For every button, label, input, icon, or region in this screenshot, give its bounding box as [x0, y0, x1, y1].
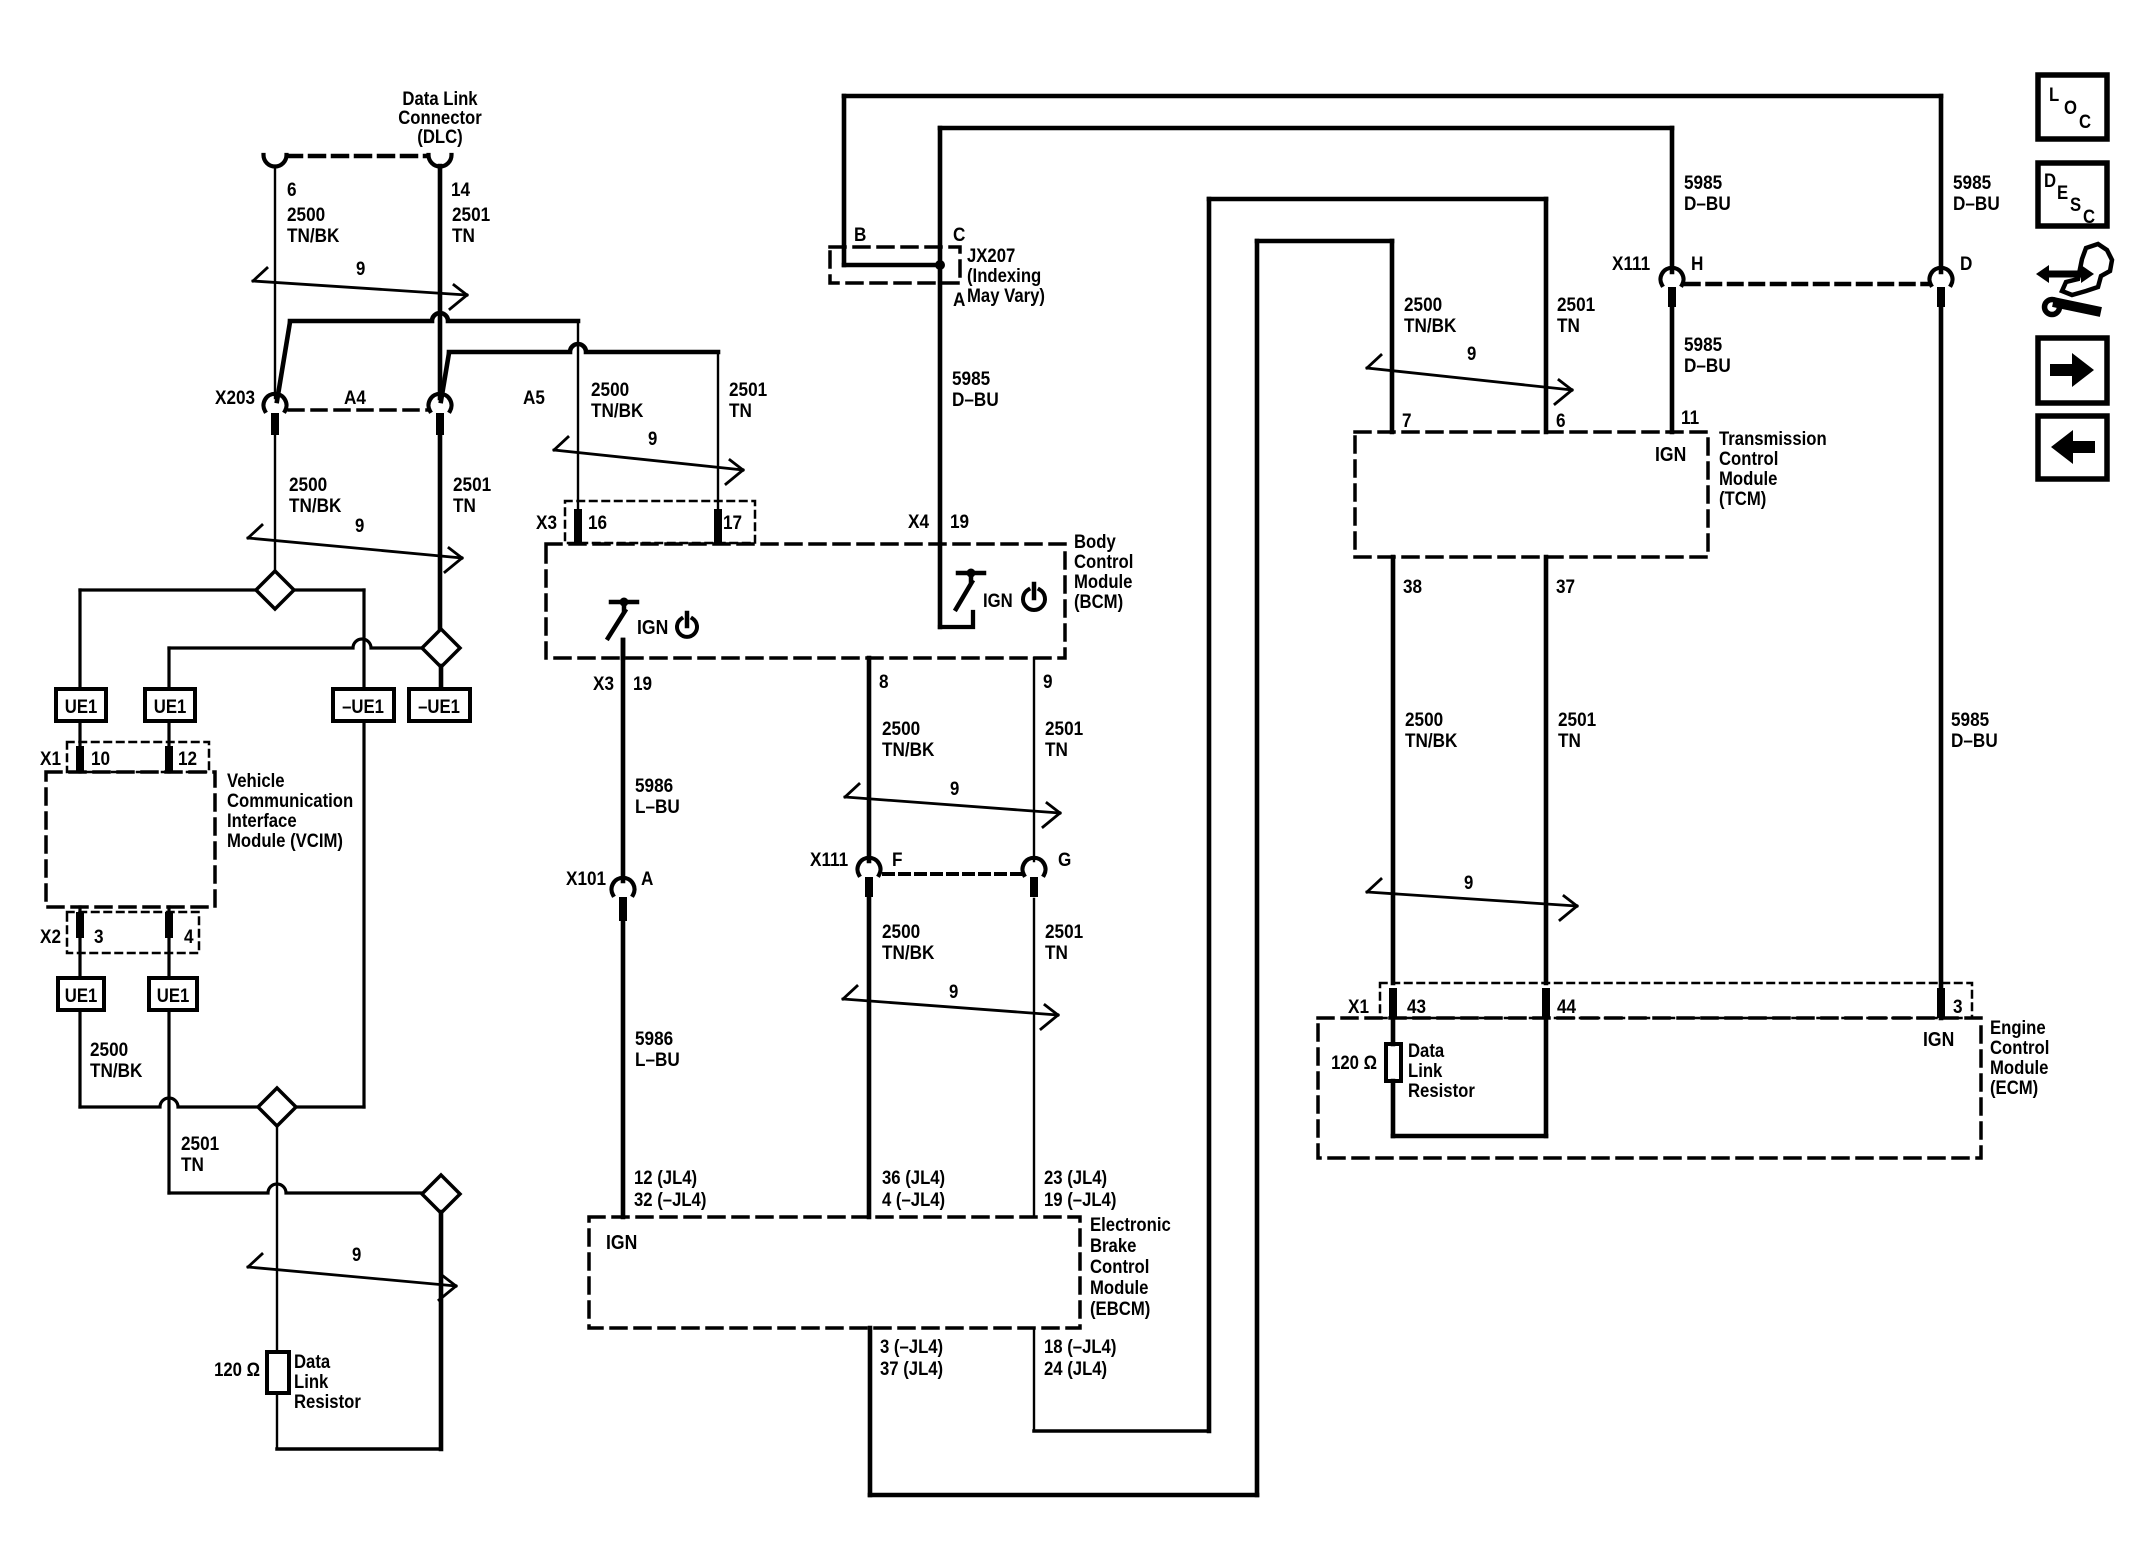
svg-text:A: A	[953, 288, 965, 310]
svg-text:TN: TN	[1045, 738, 1068, 760]
svg-text:X101: X101	[566, 867, 606, 889]
svg-text:Module: Module	[1090, 1277, 1148, 1298]
svg-text:X1: X1	[40, 747, 61, 769]
svg-text:5985: 5985	[1951, 708, 1989, 730]
svg-text:UE1: UE1	[154, 696, 187, 717]
svg-text:2500: 2500	[1405, 708, 1443, 730]
svg-text:2500: 2500	[591, 378, 629, 400]
svg-text:9: 9	[355, 515, 364, 536]
svg-text:D–BU: D–BU	[1684, 192, 1731, 214]
svg-text:Module: Module	[1719, 468, 1777, 489]
svg-text:E: E	[2057, 182, 2068, 203]
svg-text:TN: TN	[181, 1153, 204, 1175]
svg-text:120 Ω: 120 Ω	[214, 1359, 260, 1380]
svg-text:4 (–JL4): 4 (–JL4)	[882, 1189, 945, 1210]
svg-text:(TCM): (TCM)	[1719, 488, 1766, 509]
svg-text:C: C	[953, 223, 965, 245]
svg-text:L: L	[2049, 84, 2059, 105]
svg-text:8: 8	[879, 670, 889, 692]
svg-text:2501: 2501	[1557, 293, 1595, 315]
svg-text:38: 38	[1403, 575, 1422, 597]
svg-text:O: O	[2064, 97, 2077, 118]
svg-text:UE1: UE1	[65, 696, 98, 717]
svg-text:B: B	[854, 223, 866, 245]
svg-text:Control: Control	[1719, 448, 1778, 469]
svg-text:D–BU: D–BU	[1684, 354, 1731, 376]
svg-text:3: 3	[94, 925, 104, 947]
svg-text:D: D	[1960, 252, 1972, 274]
svg-text:9: 9	[648, 428, 657, 449]
svg-text:X4: X4	[908, 510, 930, 532]
svg-text:TN/BK: TN/BK	[882, 941, 935, 963]
svg-text:6: 6	[287, 178, 297, 200]
svg-text:Module (VCIM): Module (VCIM)	[227, 830, 343, 851]
svg-text:2501: 2501	[181, 1132, 219, 1154]
svg-text:S: S	[2070, 194, 2081, 215]
svg-text:19 (–JL4): 19 (–JL4)	[1044, 1189, 1116, 1210]
svg-text:Resistor: Resistor	[294, 1391, 361, 1412]
svg-text:IGN: IGN	[983, 590, 1013, 611]
svg-text:TN/BK: TN/BK	[289, 494, 342, 516]
svg-text:–UE1: –UE1	[418, 696, 460, 717]
svg-text:(ECM): (ECM)	[1990, 1077, 2038, 1098]
svg-text:14: 14	[451, 178, 471, 200]
svg-text:D: D	[2044, 170, 2056, 191]
svg-text:Interface: Interface	[227, 810, 297, 831]
svg-text:5985: 5985	[1684, 171, 1722, 193]
svg-text:Brake: Brake	[1090, 1235, 1136, 1256]
svg-text:TN: TN	[1557, 314, 1580, 336]
svg-text:Module: Module	[1074, 571, 1132, 592]
svg-text:3 (–JL4): 3 (–JL4)	[880, 1336, 943, 1357]
svg-text:Data: Data	[294, 1351, 331, 1372]
svg-text:(DLC): (DLC)	[417, 126, 462, 147]
svg-text:5986: 5986	[635, 1027, 673, 1049]
svg-text:2500: 2500	[289, 473, 327, 495]
svg-text:12: 12	[178, 747, 197, 769]
svg-text:24 (JL4): 24 (JL4)	[1044, 1358, 1107, 1379]
svg-text:L–BU: L–BU	[635, 795, 680, 817]
svg-text:Control: Control	[1074, 551, 1133, 572]
svg-text:X111: X111	[810, 848, 848, 870]
svg-text:9: 9	[352, 1244, 361, 1265]
svg-text:D–BU: D–BU	[1953, 192, 2000, 214]
svg-text:TN: TN	[453, 494, 476, 516]
svg-text:Link: Link	[1408, 1060, 1442, 1081]
svg-text:C: C	[2083, 206, 2095, 227]
svg-text:2501: 2501	[1558, 708, 1596, 730]
svg-text:2500: 2500	[287, 203, 325, 225]
svg-text:3: 3	[1953, 995, 1963, 1017]
svg-text:9: 9	[950, 778, 959, 799]
svg-text:10: 10	[91, 747, 110, 769]
svg-text:TN/BK: TN/BK	[591, 399, 644, 421]
svg-text:2501: 2501	[453, 473, 491, 495]
svg-text:X111: X111	[1612, 252, 1650, 274]
svg-text:23 (JL4): 23 (JL4)	[1044, 1167, 1107, 1188]
svg-text:5985: 5985	[1953, 171, 1991, 193]
svg-text:G: G	[1058, 848, 1071, 870]
svg-text:X1: X1	[1348, 995, 1369, 1017]
svg-text:7: 7	[1402, 409, 1412, 431]
svg-text:A4: A4	[344, 386, 367, 408]
svg-text:TN/BK: TN/BK	[882, 738, 935, 760]
svg-text:2500: 2500	[1404, 293, 1442, 315]
svg-text:Link: Link	[294, 1371, 328, 1392]
svg-text:L–BU: L–BU	[635, 1048, 680, 1070]
svg-text:2501: 2501	[452, 203, 490, 225]
svg-text:120 Ω: 120 Ω	[1331, 1052, 1377, 1073]
svg-text:JX207: JX207	[967, 245, 1015, 266]
svg-text:2500: 2500	[882, 920, 920, 942]
svg-text:43: 43	[1407, 995, 1426, 1017]
svg-text:37 (JL4): 37 (JL4)	[880, 1358, 943, 1379]
svg-text:36 (JL4): 36 (JL4)	[882, 1167, 945, 1188]
svg-text:5985: 5985	[1684, 333, 1722, 355]
svg-text:9: 9	[356, 258, 365, 279]
svg-text:5986: 5986	[635, 774, 673, 796]
svg-text:Resistor: Resistor	[1408, 1080, 1475, 1101]
svg-text:6: 6	[1556, 409, 1566, 431]
svg-text:TN: TN	[729, 399, 752, 421]
svg-text:A5: A5	[523, 386, 545, 408]
svg-text:(BCM): (BCM)	[1074, 591, 1123, 612]
svg-text:9: 9	[949, 981, 958, 1002]
svg-text:TN: TN	[452, 224, 475, 246]
svg-text:19: 19	[633, 672, 652, 694]
svg-text:9: 9	[1467, 343, 1476, 364]
svg-text:11: 11	[1681, 406, 1699, 428]
svg-text:Electronic: Electronic	[1090, 1214, 1171, 1235]
svg-text:Vehicle: Vehicle	[227, 770, 285, 791]
svg-text:(EBCM): (EBCM)	[1090, 1298, 1150, 1319]
svg-text:Communication: Communication	[227, 790, 353, 811]
svg-text:TN/BK: TN/BK	[287, 224, 340, 246]
svg-text:2500: 2500	[90, 1038, 128, 1060]
svg-text:Module: Module	[1990, 1057, 2048, 1078]
svg-text:Data: Data	[1408, 1040, 1445, 1061]
svg-text:A: A	[641, 867, 653, 889]
svg-text:TN/BK: TN/BK	[90, 1059, 143, 1081]
svg-text:TN/BK: TN/BK	[1405, 729, 1458, 751]
svg-text:19: 19	[950, 510, 969, 532]
svg-text:17: 17	[723, 511, 742, 533]
svg-text:–UE1: –UE1	[342, 696, 384, 717]
svg-text:12 (JL4): 12 (JL4)	[634, 1167, 697, 1188]
svg-text:Control: Control	[1090, 1256, 1149, 1277]
svg-text:16: 16	[588, 511, 607, 533]
svg-text:May Vary): May Vary)	[967, 285, 1045, 306]
svg-text:UE1: UE1	[65, 985, 98, 1006]
svg-text:Engine: Engine	[1990, 1017, 2046, 1038]
svg-text:C: C	[2079, 111, 2091, 132]
svg-text:D–BU: D–BU	[952, 388, 999, 410]
svg-text:2501: 2501	[1045, 920, 1083, 942]
svg-text:18 (–JL4): 18 (–JL4)	[1044, 1336, 1116, 1357]
svg-text:4: 4	[184, 925, 194, 947]
svg-text:TN: TN	[1045, 941, 1068, 963]
svg-text:X203: X203	[215, 386, 255, 408]
svg-text:X3: X3	[536, 511, 557, 533]
svg-text:2501: 2501	[1045, 717, 1083, 739]
svg-text:D–BU: D–BU	[1951, 729, 1998, 751]
svg-text:(Indexing: (Indexing	[967, 265, 1041, 286]
svg-text:F: F	[892, 848, 902, 870]
svg-text:UE1: UE1	[157, 985, 190, 1006]
svg-text:TN/BK: TN/BK	[1404, 314, 1457, 336]
svg-text:IGN: IGN	[637, 616, 668, 638]
svg-text:Body: Body	[1074, 531, 1116, 552]
svg-text:IGN: IGN	[606, 1231, 637, 1253]
svg-text:9: 9	[1043, 670, 1053, 692]
svg-text:9: 9	[1464, 872, 1473, 893]
svg-text:IGN: IGN	[1923, 1028, 1954, 1050]
svg-text:IGN: IGN	[1655, 443, 1686, 465]
svg-text:Transmission: Transmission	[1719, 428, 1827, 449]
svg-text:2500: 2500	[882, 717, 920, 739]
svg-text:Control: Control	[1990, 1037, 2049, 1058]
svg-text:TN: TN	[1558, 729, 1581, 751]
svg-text:X3: X3	[593, 672, 614, 694]
svg-text:2501: 2501	[729, 378, 767, 400]
svg-text:32 (–JL4): 32 (–JL4)	[634, 1189, 706, 1210]
svg-text:5985: 5985	[952, 367, 990, 389]
svg-text:H: H	[1691, 252, 1703, 274]
svg-text:X2: X2	[40, 925, 61, 947]
svg-text:44: 44	[1557, 995, 1577, 1017]
svg-text:37: 37	[1556, 575, 1575, 597]
